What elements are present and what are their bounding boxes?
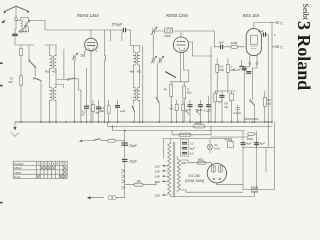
coil L6a [133,87,136,104]
wire [142,46,144,123]
wire grid line tube1 [45,29,123,31]
wire tube3 pins [244,56,258,122]
wire bottom loop1 [181,190,243,192]
resistor R8 [227,58,230,93]
coil L2b [53,45,56,88]
capsule R16 [108,139,125,142]
capacitor C16 4uF [241,131,252,147]
resistor R5 [183,82,186,122]
capsule R17 60 [188,157,211,164]
capsule R13 500 [193,125,205,128]
capacitor C21 [198,100,202,122]
switch S9 [197,111,201,115]
wire [265,147,267,172]
wire trimmer chain [152,35,154,58]
transformer T1 primary [168,139,171,197]
wire right rail [271,23,273,123]
coil L3a [50,87,53,122]
svg-text:400: 400 [137,70,142,74]
coil L3b [53,87,56,122]
wire ht caps [243,146,274,148]
svg-text:5000: 5000 [164,34,171,38]
capacitor antenna series 4uF [13,34,18,45]
svg-text:RENS 1264: RENS 1264 [77,13,99,18]
label 400 coils [45,70,141,74]
wire [156,64,158,97]
wire grid coupling [182,31,214,47]
label 4V 0,3A [214,143,220,150]
svg-text:MΩ: MΩ [187,91,192,95]
transformer T1 core [173,142,175,197]
ground symbol [11,122,19,136]
wire tube1 pin right [96,49,98,52]
wire anode tube2 [189,42,211,56]
resistor R18 [91,100,94,122]
svg-text:3A: 3A [137,179,141,183]
capacitor C18 [84,68,88,122]
svg-text:kΩ: kΩ [9,80,14,84]
coil L1 antenna [21,18,23,32]
wire tube1 pin left [85,49,87,57]
svg-text:1: 1 [274,33,276,37]
svg-text:4μF: 4μF [217,99,222,103]
wire top tie [210,56,212,122]
edge mark [0,62,3,64]
capsule R14 [172,126,211,136]
node bus junctions [20,121,273,131]
switch S3 [67,78,81,90]
wire [131,45,140,47]
wire sec to rect [181,160,188,163]
wire grid tube2 [154,31,182,37]
svg-text:VG 240: VG 240 [188,174,200,178]
switch S5 [156,97,159,122]
wire stub [162,139,164,158]
svg-text:Kurz: Kurz [14,175,21,179]
wire anode top [254,22,272,24]
capacitor C13 25uF [122,143,128,145]
terminal C upper [272,21,283,25]
svg-text:C: C [280,46,283,50]
wire [80,90,82,122]
svg-text:400: 400 [130,70,135,74]
wire tube2 pins [180,51,188,81]
capacitor C14 [122,159,127,161]
svg-text:MΩ: MΩ [100,109,105,113]
resistor R7 [216,58,219,93]
wire bracket [170,81,189,83]
capacitor C19 [96,100,100,122]
svg-text:110: 110 [155,164,160,168]
wire [55,85,63,88]
edge mark [0,202,3,204]
svg-text:Kontakt: Kontakt [14,162,24,166]
wire antenna lead-in [15,6,17,17]
resistor R4 TA [170,82,173,122]
coil L4 oscillator [104,30,105,122]
wire [107,122,109,126]
svg-text:3 Roland: 3 Roland [294,21,314,90]
tube V2 RENS1294 [173,37,188,52]
svg-text:(VGM 1064): (VGM 1064) [185,179,205,183]
switch S2 [33,78,40,81]
wire bottom right [258,122,275,190]
tube V3 RES164 [246,23,261,56]
switch S4 [132,106,135,122]
svg-text:μF: μF [82,112,86,116]
wire top of coils [45,44,56,46]
lamp LP1 [207,139,212,153]
wire dark link [244,118,258,120]
capacitor C9 [240,60,244,66]
coil L5b [137,46,140,88]
svg-text:0,1μF: 0,1μF [233,111,241,115]
resistor R9 [214,91,217,122]
coil L2a HF transformer [50,45,53,88]
svg-text:4μF: 4μF [260,142,265,146]
svg-text:Seibt: Seibt [301,4,310,21]
capacitor C10 electrolytic [220,91,224,122]
resistor R21 hatched [164,28,172,38]
wire [34,68,36,76]
resistor R3 [107,100,110,122]
trimmer C5 pair [151,56,164,64]
svg-text:0,1μF: 0,1μF [204,108,211,112]
svg-text:20: 20 [79,54,84,58]
tube V1 RENS1264 [85,30,98,51]
svg-text:220: 220 [155,180,160,184]
wire bandfilter frame [16,18,29,32]
choke box [243,187,258,192]
svg-text:600: 600 [181,161,186,165]
resistor R11 [263,91,266,122]
capacitor C20 [188,100,192,122]
svg-text:25μF: 25μF [128,144,138,148]
switch table [13,161,67,179]
capacitor C6 coupling [214,45,230,49]
capacitor C3 [115,100,119,122]
svg-text:MΩ: MΩ [219,68,224,72]
capacitor C11 [236,105,240,122]
tap bottom [155,194,168,198]
switch S8 [186,110,190,114]
svg-text:MΩ: MΩ [230,68,235,72]
rail HT lower [112,126,244,130]
svg-text:400: 400 [52,70,57,74]
resistor R20 [181,100,184,122]
svg-text:60Ω: 60Ω [198,157,204,161]
svg-text:4μF: 4μF [190,147,195,151]
antenna A [3,6,29,13]
wire tube1 cathode [90,51,92,122]
resistor R19 [175,100,178,122]
svg-text:0,5: 0,5 [190,152,194,156]
selector taps [122,169,125,189]
mains plug [87,196,125,200]
wire switch branch [28,45,30,60]
coil L5a bandfilter2 [133,46,136,88]
wire [40,80,42,122]
wire [57,49,67,79]
capacitor variable tuning C1 [22,20,30,32]
node antenna terminal [15,18,18,21]
wire left column [15,44,34,46]
capacitor C7 tone [261,33,268,122]
wire rect heater [217,147,243,189]
wire selector column [124,131,126,198]
wire mid tie [214,90,235,92]
terminal C lower [272,46,283,50]
svg-text:10kΩ: 10kΩ [247,137,253,141]
tube V4 VG240 [207,164,226,185]
trimmer C2 [72,53,78,122]
svg-text:10μF: 10μF [129,160,138,164]
fuse F1 3A [125,181,156,186]
trimmer C4 [151,27,158,35]
arrow earth-lead pointer [1,19,5,23]
svg-text:RENS 1294: RENS 1294 [166,13,188,18]
tap 125 [155,169,168,173]
wire [15,21,16,34]
transformer T1 secondary [177,157,180,193]
tap 110 [155,164,168,168]
capacitor C22 [207,96,211,122]
wire pickup line [79,139,108,142]
wire output top [163,138,231,140]
ground bus [15,121,272,123]
wire [130,30,132,46]
resistor R10 [230,91,234,122]
wire to RF stage [29,21,45,31]
switch S6 lever [166,72,176,78]
capacitor C12 [247,72,251,74]
edge mark [0,85,3,87]
tap 220 [155,180,168,184]
resistor R6 1MOhm [231,45,245,48]
wire bottom loop2 [171,192,255,196]
rail HT upper [108,125,273,127]
capacitor coupling 100uuF [123,28,130,32]
resistor R2 70kOhm [20,76,23,122]
label 0,1 4uF 0,5 [190,142,195,156]
capacitor C17 4uF [254,140,265,147]
tap 150 [155,175,168,179]
svg-text:500Ω: 500Ω [195,121,203,125]
capsule R15 10kOhm [211,131,257,147]
switch S7 [250,100,255,122]
svg-text:230: 230 [155,194,160,198]
svg-text:125: 125 [155,169,160,173]
svg-text:150: 150 [155,175,160,179]
svg-text:400: 400 [45,70,50,74]
svg-text:kΩ: kΩ [170,107,174,111]
resistor R1 [20,45,23,76]
svg-text:C: C [280,21,283,25]
svg-text:100μμF: 100μμF [112,23,124,27]
svg-text:0,1: 0,1 [190,142,194,146]
capacitor block C15 [181,140,189,157]
output trans Ausg [223,137,233,147]
capacitor C8 0,1uF [242,68,246,70]
coil L6b [137,87,140,122]
switch S1 wave band [28,60,36,68]
wire stub [111,30,122,41]
svg-text:Ausg.: Ausg. [223,137,232,141]
svg-text:0,3A: 0,3A [214,147,220,151]
svg-text:RES 164: RES 164 [243,13,260,18]
wire [267,122,269,147]
wire [256,147,258,189]
svg-text:4μF: 4μF [246,142,251,146]
svg-text:1MΩ: 1MΩ [231,41,238,45]
